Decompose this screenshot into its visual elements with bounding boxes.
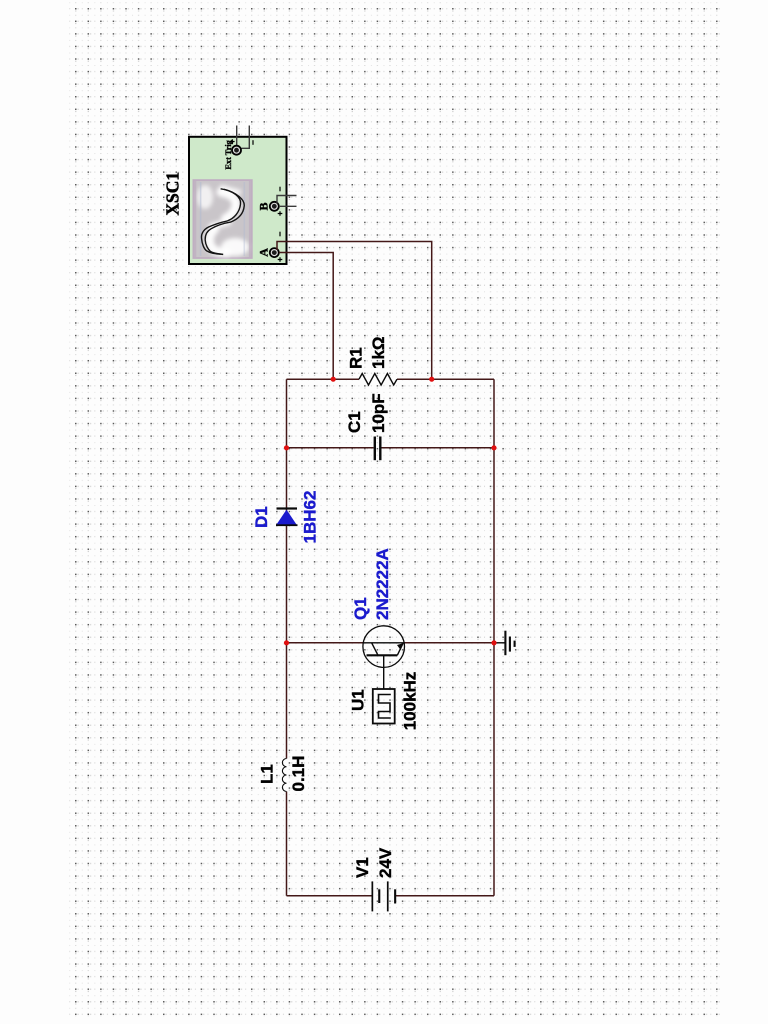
svg-text:U1: U1: [349, 689, 368, 711]
svg-text:1BH62: 1BH62: [301, 491, 320, 544]
svg-text:V1: V1: [353, 857, 372, 878]
svg-text:Q1: Q1: [351, 597, 370, 620]
svg-text:A: A: [257, 248, 271, 257]
svg-text:B: B: [257, 202, 271, 210]
svg-text:0.1H: 0.1H: [289, 756, 308, 792]
svg-text:L1: L1: [258, 764, 277, 784]
svg-text:10pF: 10pF: [369, 393, 388, 433]
svg-text:R1: R1: [347, 347, 366, 369]
svg-text:Ext Trig: Ext Trig: [224, 139, 233, 169]
svg-text:2N2222A: 2N2222A: [373, 548, 392, 620]
svg-text:100kHz: 100kHz: [401, 672, 420, 731]
svg-text:1kΩ: 1kΩ: [369, 336, 388, 369]
svg-text:XSC1: XSC1: [163, 172, 183, 216]
svg-text:C1: C1: [345, 411, 364, 433]
svg-text:D1: D1: [252, 506, 271, 528]
svg-text:24V: 24V: [376, 847, 395, 878]
